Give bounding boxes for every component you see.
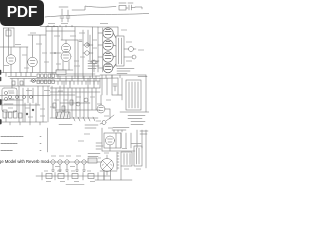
wire top B+ rail lower (45, 14, 149, 18)
wire mid-left verticals (0, 86, 50, 122)
speaker block (134, 146, 142, 166)
input panel box (2, 88, 17, 112)
input jack J2 (4, 97, 7, 100)
resistor R30 (119, 6, 128, 11)
capacitor C5 plates (79, 40, 90, 46)
power tube V7 (103, 63, 116, 73)
wire bias row (112, 130, 126, 132)
speaker label (131, 143, 141, 145)
footnote line 1 (1, 136, 23, 138)
node mark (0, 71, 2, 75)
pilot lamp (32, 79, 36, 83)
text right notes (128, 116, 145, 119)
bypass cap row (9, 96, 33, 99)
filter resistor R21 (58, 174, 64, 179)
label scatter mid (8, 91, 121, 142)
speaker jack J5 (124, 47, 136, 52)
capacitor C15 (113, 84, 117, 91)
wire lower left bus (0, 122, 47, 125)
pot VR8 (82, 160, 86, 170)
resistor R16 (70, 100, 73, 105)
reverb tube V8 (106, 136, 115, 151)
decoupling caps on bus (12, 81, 23, 85)
capacitor C22 (129, 5, 135, 10)
small text center (85, 125, 98, 128)
wire reverb feed (102, 128, 135, 151)
wire ground bus left (0, 72, 56, 74)
wire ground bus center (50, 73, 95, 75)
triode V1B (28, 35, 38, 73)
wire choke feed (120, 75, 149, 112)
block label (59, 124, 72, 126)
triode V2B (61, 40, 71, 62)
supply label (66, 184, 84, 186)
resistor R15 (62, 106, 65, 111)
dark mark 3 (0, 78, 2, 81)
wire mixer (61, 30, 90, 79)
power tube V6 (103, 52, 116, 62)
wire right mid rail (100, 75, 146, 78)
footnote line 2 (1, 143, 17, 145)
label scatter bottom (44, 149, 141, 182)
filter resistor R22 (72, 174, 78, 179)
input jack J1 (4, 91, 7, 94)
tick row below bus (58, 81, 98, 85)
coil winding (117, 152, 119, 170)
potentiometer VR2 (83, 51, 93, 55)
rca jack (100, 115, 114, 125)
wire second vertical set (0, 103, 40, 122)
ground stubs (6, 73, 31, 77)
dark mark (0, 100, 2, 104)
hatched block vibrato (56, 112, 70, 119)
terminal strip row A (37, 74, 54, 78)
driver tube V3 (97, 95, 110, 119)
ground hatch row (52, 170, 86, 172)
label above pots (88, 154, 100, 157)
bias text (113, 127, 129, 129)
svg-text:ge Model with Reverb mod: ge Model with Reverb mod (0, 159, 49, 164)
jack labels (4, 93, 14, 104)
value label 16uF (119, 2, 133, 4)
power tube V4 (103, 28, 116, 38)
filter resistor R20 (46, 174, 52, 179)
dark mark 2 (0, 120, 2, 124)
node dot (54, 52, 56, 54)
tone cap C8 (76, 102, 80, 106)
resistor R12 (56, 70, 66, 75)
wire reverb return (95, 166, 132, 180)
filter resistor R23 (88, 174, 94, 179)
pot VR7 (75, 160, 79, 170)
capacitor C21 (66, 10, 70, 22)
wire right verticals (102, 75, 112, 95)
PDF badge (0, 0, 44, 26)
pot VR4 (51, 160, 55, 170)
wire cathode pair (56, 40, 78, 79)
pot VR5 (58, 160, 62, 170)
terminal strip row B (37, 80, 54, 84)
node dot grid (26, 109, 34, 115)
wire reverb box edge (47, 128, 49, 152)
text reverb notes (96, 143, 103, 149)
wire right edge (145, 130, 147, 168)
text right corner (140, 131, 148, 134)
label scatter top (4, 24, 144, 69)
output transformer T1 (116, 36, 124, 66)
reverb transformer T2 (121, 152, 132, 166)
wire V2 plate rail (46, 27, 98, 79)
filter caps (42, 173, 104, 181)
wire mid stubs (12, 75, 112, 88)
rectifier tube V9 (101, 155, 114, 175)
potentiometer VR3 (90, 60, 98, 72)
wire supply chain (36, 175, 110, 177)
wire screen feed (112, 78, 122, 100)
wire grid rail (0, 47, 28, 73)
label block bright channel (88, 61, 99, 69)
wire power section rail (98, 27, 118, 72)
wire input tap (50, 52, 61, 54)
rectifier arrows (102, 164, 112, 180)
wire left vertical set (0, 86, 50, 122)
ground hatches center (73, 117, 95, 121)
coupling cap cluster (3, 110, 22, 118)
wire tremolo bus (48, 161, 102, 163)
wire plate rail 2 (28, 27, 58, 73)
tube note text (117, 69, 134, 74)
wire preamp top rail (4, 28, 15, 73)
speaker jack J6 (124, 55, 136, 59)
footnote dots (40, 137, 41, 151)
wire V2 aux verticals (46, 25, 93, 78)
capacitor C20 (60, 9, 64, 22)
potentiometer VR1 (83, 43, 93, 47)
choke assembly (126, 80, 141, 110)
reverb driver enclosure (104, 133, 121, 148)
resistor R1 (6, 30, 11, 36)
wire center verticals (52, 86, 96, 118)
wire main bus (8, 76, 118, 81)
wire center cross rails (50, 88, 100, 118)
power tube V5 (103, 40, 116, 50)
wire top B+ rail upper (72, 6, 142, 10)
text P note (131, 122, 145, 125)
footnote line 3 (1, 150, 13, 152)
pot VR6 (65, 160, 69, 170)
tone cap C9 (84, 98, 88, 102)
resistor R14 (53, 103, 56, 108)
footswitch box (88, 158, 97, 163)
B+ label (138, 76, 147, 78)
value label 10k (59, 6, 68, 8)
wire dashed drops (116, 130, 142, 148)
triode V1A (6, 47, 16, 73)
triode V2A (62, 44, 71, 53)
